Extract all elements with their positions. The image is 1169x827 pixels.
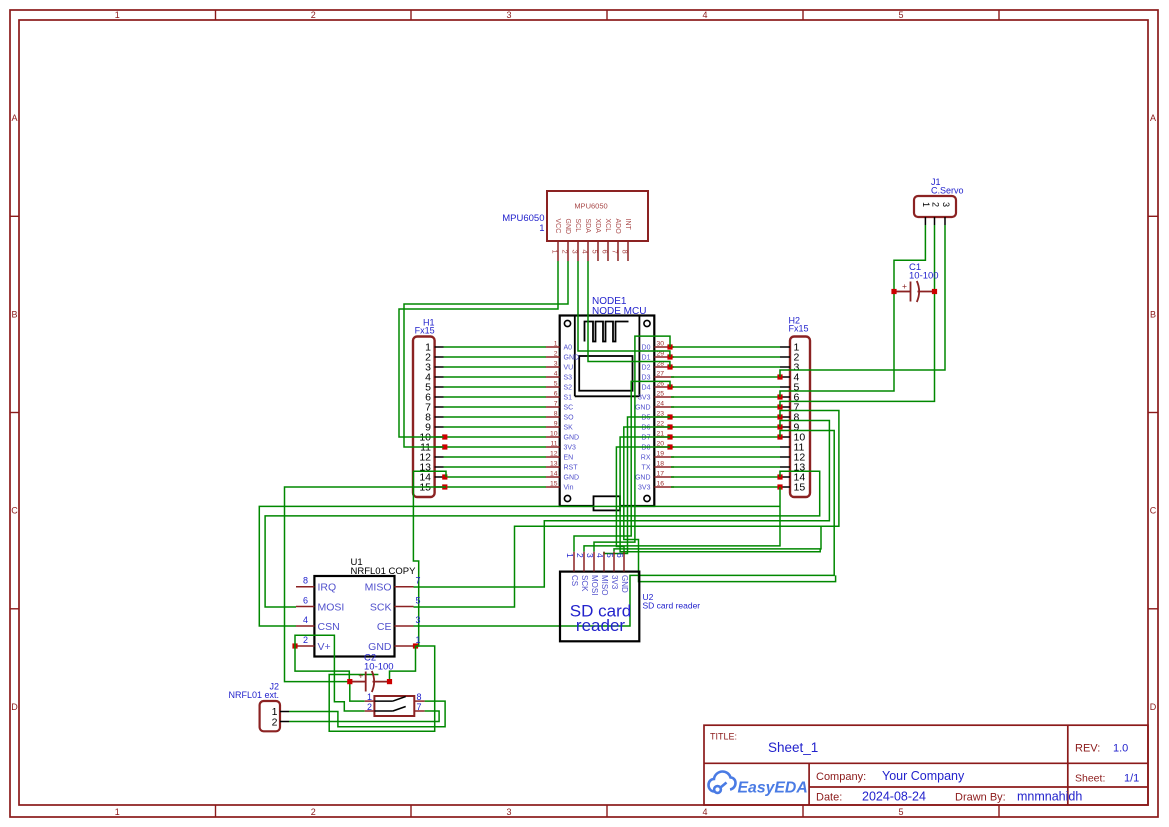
svg-text:3: 3 (554, 361, 558, 368)
svg-text:7: 7 (417, 702, 422, 712)
svg-text:3V3: 3V3 (638, 485, 651, 492)
svg-text:RST: RST (564, 465, 579, 472)
svg-text:B: B (11, 309, 17, 319)
svg-text:14: 14 (550, 471, 558, 478)
svg-text:GND: GND (635, 405, 651, 412)
svg-text:INT: INT (624, 219, 631, 231)
svg-text:mnmnahidh: mnmnahidh (1017, 790, 1082, 804)
svg-text:2: 2 (930, 202, 940, 207)
svg-text:3: 3 (416, 615, 421, 625)
svg-text:10: 10 (550, 431, 558, 438)
svg-text:MOSI: MOSI (590, 575, 599, 595)
svg-text:5: 5 (898, 807, 903, 817)
svg-text:SCK: SCK (370, 601, 392, 613)
svg-text:Fx15: Fx15 (789, 324, 809, 334)
svg-text:GND: GND (564, 435, 580, 442)
svg-text:MPU6050: MPU6050 (574, 202, 607, 211)
svg-text:XDA: XDA (594, 219, 601, 234)
svg-text:ADO: ADO (614, 219, 621, 235)
svg-text:2: 2 (561, 250, 570, 254)
svg-text:C.Servo: C.Servo (931, 186, 964, 196)
svg-text:NODE MCU: NODE MCU (592, 306, 646, 317)
svg-text:6: 6 (615, 553, 625, 558)
svg-text:6: 6 (601, 250, 610, 254)
svg-text:4: 4 (581, 250, 590, 254)
svg-text:Drawn By:: Drawn By: (955, 792, 1006, 804)
svg-text:VCC: VCC (554, 219, 561, 234)
svg-text:D4: D4 (642, 385, 651, 392)
svg-text:4: 4 (702, 10, 707, 20)
svg-text:1: 1 (115, 807, 120, 817)
svg-text:+: + (358, 671, 363, 681)
svg-text:MISO: MISO (365, 582, 392, 594)
svg-text:Sheet:: Sheet: (1075, 773, 1105, 785)
svg-text:16: 16 (657, 481, 665, 488)
svg-text:D5: D5 (642, 415, 651, 422)
svg-text:6: 6 (303, 596, 308, 606)
svg-text:3V3: 3V3 (564, 445, 577, 452)
svg-text:C: C (1150, 506, 1157, 516)
svg-text:SK: SK (564, 425, 574, 432)
svg-text:5: 5 (605, 553, 615, 558)
svg-text:4: 4 (554, 371, 558, 378)
svg-text:D3: D3 (642, 375, 651, 382)
svg-text:15: 15 (550, 481, 558, 488)
svg-text:SC: SC (564, 405, 574, 412)
svg-text:GND: GND (564, 355, 580, 362)
svg-text:8: 8 (621, 250, 630, 254)
svg-text:NRFL01 ext.: NRFL01 ext. (228, 690, 279, 700)
svg-text:S3: S3 (564, 375, 573, 382)
svg-text:D6: D6 (642, 425, 651, 432)
svg-text:TX: TX (642, 465, 651, 472)
svg-text:5: 5 (591, 250, 600, 254)
svg-text:4: 4 (595, 553, 605, 558)
svg-text:6: 6 (554, 391, 558, 398)
svg-text:A: A (1150, 113, 1156, 123)
svg-text:25: 25 (657, 391, 665, 398)
svg-text:4: 4 (303, 615, 308, 625)
svg-text:2: 2 (311, 10, 316, 20)
svg-text:2024-08-24: 2024-08-24 (862, 790, 926, 804)
svg-text:2: 2 (272, 717, 278, 729)
svg-text:10-100: 10-100 (364, 661, 394, 672)
svg-text:4: 4 (702, 807, 707, 817)
svg-text:S2: S2 (564, 385, 573, 392)
svg-text:+: + (902, 281, 907, 291)
svg-text:MPU6050: MPU6050 (502, 213, 544, 224)
svg-text:MOSI: MOSI (318, 601, 345, 613)
svg-text:2: 2 (554, 351, 558, 358)
svg-text:Date:: Date: (816, 792, 842, 804)
svg-text:3V3: 3V3 (638, 395, 651, 402)
svg-text:A: A (11, 113, 17, 123)
svg-text:1: 1 (367, 692, 372, 702)
svg-text:2: 2 (311, 807, 316, 817)
svg-text:2: 2 (303, 635, 308, 645)
svg-text:SDA: SDA (584, 219, 591, 234)
svg-text:Fx15: Fx15 (415, 326, 435, 336)
svg-text:EasyEDA: EasyEDA (738, 780, 808, 797)
svg-text:5: 5 (416, 596, 421, 606)
svg-text:Vin: Vin (564, 485, 574, 492)
svg-text:REV:: REV: (1075, 743, 1100, 755)
svg-text:CSN: CSN (318, 621, 340, 633)
svg-text:19: 19 (657, 451, 665, 458)
svg-text:S1: S1 (564, 395, 573, 402)
svg-text:CE: CE (377, 621, 392, 633)
svg-text:GND: GND (635, 475, 651, 482)
svg-text:1.0: 1.0 (1113, 743, 1128, 755)
svg-text:8: 8 (554, 411, 558, 418)
svg-text:B: B (1150, 309, 1156, 319)
svg-text:2: 2 (575, 553, 585, 558)
svg-text:1: 1 (115, 10, 120, 20)
svg-text:D1: D1 (642, 355, 651, 362)
svg-text:V+: V+ (318, 641, 331, 653)
svg-text:1: 1 (565, 553, 575, 558)
svg-text:GND: GND (564, 219, 571, 235)
svg-text:D: D (1150, 702, 1157, 712)
svg-text:27: 27 (657, 371, 665, 378)
svg-text:RX: RX (641, 455, 651, 462)
svg-text:3: 3 (506, 10, 511, 20)
svg-text:5: 5 (898, 10, 903, 20)
svg-text:A0: A0 (564, 345, 573, 352)
svg-text:D: D (11, 702, 18, 712)
svg-text:NRFL01 COPY: NRFL01 COPY (351, 566, 417, 577)
svg-text:VU: VU (564, 365, 574, 372)
svg-text:7: 7 (416, 576, 421, 586)
svg-text:TITLE:: TITLE: (710, 732, 737, 742)
svg-text:D8: D8 (642, 445, 651, 452)
svg-text:GND: GND (564, 475, 580, 482)
svg-text:D7: D7 (642, 435, 651, 442)
svg-text:9: 9 (554, 421, 558, 428)
svg-text:10-100: 10-100 (909, 271, 939, 282)
svg-text:Sheet_1: Sheet_1 (768, 740, 818, 755)
svg-text:1/1: 1/1 (1124, 773, 1139, 785)
svg-text:1: 1 (554, 341, 558, 348)
svg-text:8: 8 (303, 576, 308, 586)
svg-text:7: 7 (611, 250, 620, 254)
svg-text:2: 2 (367, 702, 372, 712)
svg-text:SO: SO (564, 415, 575, 422)
svg-text:3: 3 (506, 807, 511, 817)
svg-text:5: 5 (554, 381, 558, 388)
svg-text:3: 3 (585, 553, 595, 558)
svg-text:XCL: XCL (604, 219, 611, 233)
svg-text:IRQ: IRQ (318, 582, 337, 594)
svg-text:8: 8 (417, 692, 422, 702)
svg-text:SCL: SCL (574, 219, 581, 233)
svg-text:1: 1 (551, 250, 560, 254)
svg-text:1: 1 (921, 202, 931, 207)
svg-text:11: 11 (550, 441, 557, 448)
svg-text:EN: EN (564, 455, 574, 462)
svg-text:SD card reader: SD card reader (643, 600, 701, 610)
svg-text:24: 24 (657, 401, 665, 408)
svg-text:13: 13 (550, 461, 558, 468)
svg-text:D2: D2 (642, 365, 651, 372)
svg-text:MISO: MISO (600, 575, 609, 595)
svg-text:3V3: 3V3 (610, 575, 619, 590)
svg-text:reader: reader (576, 616, 625, 635)
svg-text:1: 1 (539, 223, 544, 234)
svg-text:30: 30 (657, 341, 665, 348)
svg-text:GND: GND (620, 575, 629, 593)
svg-text:Your Company: Your Company (882, 769, 965, 783)
svg-text:GND: GND (368, 641, 392, 653)
svg-text:SCK: SCK (580, 575, 589, 592)
svg-text:3: 3 (941, 202, 951, 207)
svg-text:12: 12 (550, 451, 558, 458)
svg-text:CS: CS (570, 575, 579, 586)
svg-text:C: C (11, 506, 18, 516)
svg-text:7: 7 (554, 401, 558, 408)
svg-text:17: 17 (657, 471, 665, 478)
svg-text:18: 18 (657, 461, 665, 468)
svg-text:15: 15 (794, 482, 806, 494)
svg-text:Company:: Company: (816, 771, 866, 783)
svg-text:3: 3 (571, 250, 580, 254)
